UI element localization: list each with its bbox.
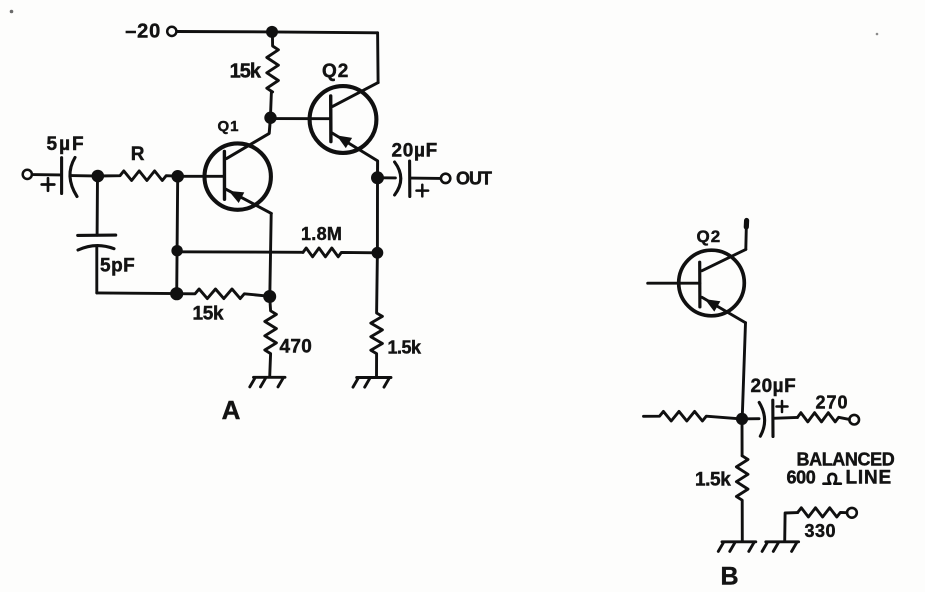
wire input to 5uF cap [32, 173, 60, 176]
wire top rail [177, 32, 377, 33]
wire Q2B base stub [648, 282, 700, 285]
ground (1.5k A) [357, 376, 391, 379]
wire Q2B collector stub tip [744, 221, 749, 228]
wire node to 20uF cap (B) [748, 417, 760, 420]
wire node to Q2 base [271, 117, 331, 120]
speck (scan artifact top-right) [876, 33, 879, 36]
terminal input [23, 170, 32, 179]
wire cap to 270 [773, 416, 798, 420]
wire to Q1 base [178, 175, 225, 178]
capacitor 5pF [78, 235, 116, 250]
svg-text:470: 470 [280, 337, 313, 358]
svg-text:1.5k: 1.5k [695, 470, 731, 491]
svg-text:A: A [222, 395, 241, 425]
svg-text:15k: 15k [193, 304, 225, 325]
svg-text:5µF: 5µF [47, 134, 86, 155]
transistor Q2 (A) [310, 83, 379, 178]
polarity + (output cap A) [417, 189, 429, 192]
node Q1-collector Q2-base [264, 112, 276, 124]
polarity + (input cap) [42, 183, 55, 186]
resistor 1.8M [303, 248, 377, 257]
resistor 1.5k (B) [736, 456, 748, 542]
svg-text:600: 600 [787, 468, 816, 488]
svg-text:R: R [131, 144, 145, 165]
svg-text:LINE: LINE [846, 468, 892, 489]
wire node to 20uF cap [383, 176, 395, 179]
wire feedback left segment [177, 250, 303, 253]
ground (330 branch) [766, 540, 799, 543]
resistor R [98, 171, 178, 181]
resistor 330 [798, 508, 847, 517]
svg-text:BALANCED: BALANCED [797, 450, 895, 470]
node output-1.8M junction [372, 247, 384, 259]
node rail-15k junction [266, 26, 278, 38]
transistor Q1 [205, 118, 272, 213]
terminal 270 output [849, 415, 859, 425]
resistor (B base-return, unlabeled) [644, 411, 737, 421]
svg-text:1.5k: 1.5k [388, 338, 423, 358]
resistor 15k (Q1 collector load) [267, 32, 279, 113]
svg-text:Q2: Q2 [322, 61, 349, 82]
wire 5pF bottom to node [97, 291, 177, 295]
wire Q2B emitter down [742, 323, 745, 419]
terminal OUT [441, 174, 450, 183]
node Q1 emitter junction [263, 290, 276, 303]
svg-text:270: 270 [816, 393, 849, 413]
svg-text:20µF: 20µF [392, 141, 439, 162]
svg-text:B: B [720, 563, 738, 591]
wire Q1 emitter down [270, 213, 271, 296]
svg-text:OUT: OUT [456, 169, 492, 189]
svg-text:20µF: 20µF [751, 376, 797, 397]
wire 5pF down [95, 248, 98, 293]
wire output node down [376, 178, 379, 253]
node Q2 emitter output [371, 171, 384, 184]
wire node down to 1.5k (B) [741, 419, 744, 456]
ground (470) [254, 376, 286, 379]
svg-text:330: 330 [805, 521, 837, 541]
transistor Q2 (B) [679, 249, 746, 322]
node Q1 base junction [171, 170, 184, 183]
ground (1.5k B) [722, 540, 756, 543]
resistor 470 [265, 297, 277, 377]
svg-text:Q1: Q1 [218, 118, 240, 135]
capacitor 5uF (input) [62, 158, 77, 197]
resistor 270 [798, 413, 850, 422]
label ohm symbol [824, 474, 841, 484]
svg-text:Q2: Q2 [697, 227, 722, 246]
wire cap to input node [71, 174, 93, 177]
wire base vertical [177, 176, 178, 293]
svg-text:15k: 15k [230, 61, 262, 83]
capacitor 20uF (B) [759, 400, 773, 436]
wire ground riser to 330 [785, 513, 798, 542]
terminal -20 [167, 27, 176, 36]
node base bottom junction [170, 287, 183, 300]
node B junction [736, 413, 748, 425]
wire input node down [96, 176, 99, 235]
svg-text:–20: –20 [125, 21, 161, 43]
capacitor 20uF (output A) [395, 161, 410, 197]
node input junction [92, 170, 105, 183]
polarity + (cap B) [777, 405, 788, 408]
node feedback tap [171, 245, 182, 256]
wire rail down to Q2 collector [376, 33, 379, 83]
wire cap to OUT terminal [410, 177, 441, 180]
svg-text:1.8M: 1.8M [301, 224, 342, 244]
svg-text:5pF: 5pF [100, 256, 135, 277]
resistor 1.5k (A) [371, 253, 383, 377]
resistor 15k (base divider) [177, 289, 270, 299]
terminal 330 output [847, 508, 857, 518]
wire Q2B collector stub [744, 228, 747, 250]
speck (scan artifact top-left) [10, 10, 14, 14]
